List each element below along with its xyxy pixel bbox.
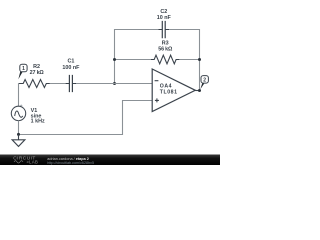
source V1	[11, 106, 25, 120]
svg-text:OA4: OA4	[160, 84, 172, 90]
svg-text:2: 2	[203, 78, 206, 84]
svg-text:http://circuitlab.com/c628bv5: http://circuitlab.com/c628bv5	[47, 161, 94, 165]
wire R3 branch right segment	[179, 59, 199, 61]
svg-text:TL081: TL081	[160, 90, 178, 96]
wire V1 top (left vertical)	[18, 84, 20, 107]
source V1 sine glyph	[15, 111, 23, 117]
footer logo wave	[14, 161, 23, 163]
svg-text:1: 1	[22, 66, 25, 72]
junction node: feedback left / inverting input net	[113, 82, 116, 85]
wire R3 branch left segment	[115, 59, 151, 61]
svg-text:C1: C1	[67, 59, 74, 65]
capacitor C1 leads	[66, 83, 77, 85]
svg-text:1 kHz: 1 kHz	[31, 119, 45, 125]
svg-text:C2: C2	[160, 9, 167, 15]
wire R2 to C1	[50, 83, 66, 85]
capacitor C1	[69, 75, 72, 92]
svg-text:10 nF: 10 nF	[157, 15, 172, 21]
svg-text:27 kΩ: 27 kΩ	[30, 70, 45, 76]
svg-text:100 nF: 100 nF	[62, 65, 80, 71]
wire op-amp output lead	[195, 90, 199, 92]
resistor R2	[19, 80, 50, 88]
ground stub	[18, 135, 20, 140]
wire bottom net	[19, 101, 153, 135]
capacitor C2 leads	[159, 29, 170, 31]
polarity plus mark	[20, 105, 22, 107]
node flag 1 tail	[18, 71, 22, 79]
op-amp non-inverting input mark	[155, 98, 159, 102]
svg-text:56 kΩ: 56 kΩ	[158, 47, 173, 53]
ground	[12, 140, 25, 147]
wire top feedback net (C2 branch) right segment	[169, 30, 200, 91]
junction node: feedback left / R3	[113, 58, 116, 61]
junction node: output	[198, 89, 201, 92]
node flag 2 tail	[200, 83, 204, 90]
node flag 2	[201, 76, 208, 84]
op-amp inverting input mark	[155, 80, 159, 82]
node flag 1	[20, 64, 27, 72]
junction node: ground / bottom net	[17, 133, 20, 136]
resistor R3	[151, 55, 180, 64]
capacitor C2	[162, 21, 165, 38]
footer band	[0, 155, 220, 166]
wire top feedback net (C2 branch) left segment	[115, 30, 159, 84]
wire inverting input net (C1 to op-amp)	[76, 83, 152, 85]
svg-text:«LAB: «LAB	[27, 160, 39, 165]
op-amp OA4	[152, 69, 195, 112]
junction node: feedback right / R3	[198, 58, 201, 61]
wire V1 bottom	[18, 121, 20, 135]
